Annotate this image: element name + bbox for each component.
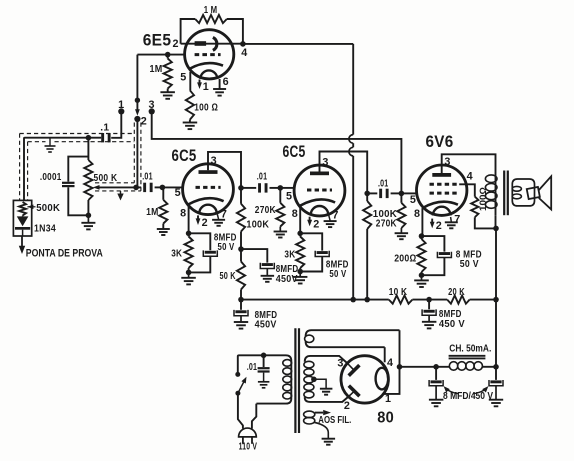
AC plug [239,428,257,444]
label C1 value .1 [100,123,109,134]
svg-text:50 K: 50 K [220,271,236,282]
label C2 value .0001 [40,172,62,183]
svg-text:8: 8 [292,208,298,220]
wire V4 plate lead pin3 [442,154,496,173]
svg-text:270K: 270K [376,219,397,230]
svg-text:3: 3 [322,157,328,169]
svg-text:5: 5 [180,71,186,83]
wire B+ vertical right [495,228,497,366]
svg-text:2: 2 [344,400,350,412]
ground C11 [422,322,437,329]
svg-text:7: 7 [221,208,227,220]
ground R11 [293,272,308,284]
probe tip arrow [19,236,25,254]
junction R14 bottom [419,272,425,278]
svg-text:5: 5 [175,187,181,199]
V1 grid dashes [195,53,221,56]
resistor R13 270K (V4 grid leak) [397,193,405,233]
resistor R12 100K (V3 plate load) [363,193,371,299]
label V2 pin 3 [211,155,217,167]
svg-text:6V6: 6V6 [426,133,454,151]
tube V5 80 envelope [341,356,388,403]
ground V2 pin7 [212,220,225,226]
wire C1 left lead [88,137,101,139]
ground C6 [261,276,275,282]
label 110 V [239,442,258,453]
wire C9 to V4 grid [401,192,416,194]
node jack 3 [149,108,155,114]
svg-text:1: 1 [203,81,209,93]
svg-text:.0001: .0001 [40,172,62,183]
label V1 pin 4 [241,47,247,59]
label R15 value 100 ohm [478,187,488,211]
svg-text:6E5: 6E5 [143,32,172,50]
resistor R6 1M (V2 grid leak) [159,187,167,229]
svg-text:.01: .01 [247,362,258,373]
label V5 pin 3 [337,357,343,369]
label C3 value .01 [142,172,153,183]
svg-text:50 V: 50 V [460,259,479,270]
resistor R15 100 ohm (screen) [471,197,496,229]
capacitor C9 .01 (to V4 grid) [367,189,401,198]
wire V1 grid to node [137,54,184,56]
wire V4 screen pin4 [459,184,475,196]
ground R7 [181,272,196,284]
capacitor C5 .01 (interstage) [241,183,280,192]
svg-text:3K: 3K [171,248,182,259]
V4 cathode arc [422,202,458,208]
label V4 pin 8 [414,208,420,220]
svg-text:500K: 500K [36,203,60,214]
svg-text:.01: .01 [378,178,389,189]
svg-text:2: 2 [436,220,442,232]
V4 pin2 arrow [430,219,435,229]
transformer T2 core [295,328,299,433]
label R11 value 3K [284,250,295,261]
transformer T2 HV secondary [304,356,350,402]
transformer T2 primary [239,355,292,403]
capacitor C12 .01 (AC line) [258,355,270,382]
label tube V2 6C5 [172,147,197,165]
junction V2 cathode [186,231,192,237]
V3 heater loop [311,206,328,215]
V3 cathode arc [300,199,335,205]
label R10 value 270K [255,205,276,216]
V2 pin7 lead [217,214,218,219]
label V1 pin 6 [223,76,229,88]
V3 pin2 arrow [307,217,312,227]
svg-text:450 V: 450 V [439,319,465,330]
label R12 value 100K [373,209,398,220]
transformer T2 filament winding AOS FIL [304,410,331,439]
ground V1 pin6 [213,89,226,96]
svg-text:500 K: 500 K [94,173,118,184]
label PONTA DE PROVA [26,247,103,259]
V4 grid dashes [430,192,460,195]
svg-text:100 Ω: 100 Ω [194,103,218,114]
junction bus/R12 feed [364,297,370,303]
svg-text:3: 3 [211,155,217,167]
capacitor C6 8MFD 450V (decoupling) [241,249,274,276]
label R3 value 100 ohm [194,103,218,114]
ground pot/C2 [81,215,95,229]
ground R14 [414,275,429,287]
V4 screen dashes [430,183,460,186]
V4 plate bar [432,173,451,177]
junction pot bottom [86,213,92,219]
junction bus left end [238,297,244,303]
wire jack2 down (shielded) [136,119,138,187]
junction grid/1M [165,52,171,58]
label C6 value 8MFD 450V [276,264,299,285]
label tube V5 80 [377,409,394,426]
ground shield top [45,138,56,152]
V3 plate bar [310,172,329,176]
label C8 value 8MFD 50V [326,260,349,281]
label V3 pin 8 [292,208,298,220]
V1 cathode arc [190,63,223,69]
svg-text:80: 80 [377,409,394,426]
label V3 pin 3 [322,157,328,169]
transformer T1 primary [485,171,497,228]
svg-text:8: 8 [414,208,420,220]
choke CH 50mA [449,362,496,371]
ground R6 [157,229,170,235]
label R7 value 3K [171,248,182,259]
svg-text:5: 5 [286,190,292,202]
junction V3 plate/C9 [364,191,370,197]
ground R10 [274,232,288,238]
capacitor C10 8MFD 50V (V4 cathode) [422,236,452,275]
V5 plate 2 [349,386,360,397]
V3 pin7 lead [329,216,330,221]
svg-text:7: 7 [332,210,338,222]
label tube V1 6E5 [143,32,172,50]
shield braid dashes [20,123,141,201]
junction R7 bottom [186,270,192,276]
label C12 value .01 [247,362,258,373]
switch S1 [235,355,246,395]
label V1 pin 5 [180,71,186,83]
probe box [13,200,31,236]
svg-text:.1: .1 [100,123,109,134]
capacitor C3 .01 [136,183,162,192]
resistor R7 3K (V2 cathode) [185,233,193,272]
capacitor C14 8MFD/450V [489,367,503,400]
junction C5/V3 grid [278,185,284,191]
label R8 value 100K [246,219,269,230]
wire V3 plate lead pin3 [320,152,368,194]
wire probe to C1 junction [24,138,88,201]
svg-text:1 M: 1 M [204,5,218,16]
label AOS FIL [318,415,351,426]
svg-text:3: 3 [149,99,155,111]
label R13 value 270K [376,219,397,230]
label node 1 [118,99,124,111]
wire C5 to V3 grid [280,187,295,189]
ground C7 [234,322,248,329]
junction V2 plate/C5 [238,185,244,191]
V4 pin7 lead [450,217,453,222]
svg-text:CH. 50mA.: CH. 50mA. [449,343,491,354]
svg-text:50 V: 50 V [218,242,235,253]
label C11 value 8MFD 450V [439,309,465,330]
svg-text:1: 1 [385,393,391,405]
plug arrow into jack 2 [135,102,140,116]
wire V4 cathode pin8 [421,208,423,236]
label R1 value 1M [204,5,218,16]
svg-text:8: 8 [180,208,186,220]
wire B+ bus [241,299,496,301]
svg-text:8 MFD/450 V: 8 MFD/450 V [443,391,493,402]
junction bus/V1 feed [350,297,356,303]
V1 pin6 lead [219,79,221,89]
label V2 pin 5 [175,187,181,199]
svg-text:.01: .01 [142,172,153,183]
label R17 value 20K [448,287,465,298]
diode D1 1N34 [15,216,30,237]
svg-text:3: 3 [444,156,450,168]
node jack 2 [134,116,140,122]
R4 wiper arm [93,185,136,190]
V2 grid dashes [196,186,221,189]
resistor R1 1M (6E5 plate feedback) [195,15,227,23]
transformer T1 secondary [512,179,534,206]
svg-text:50 V: 50 V [329,269,346,280]
ground R13 [395,233,409,239]
ground C12 [258,382,270,388]
label node 3 [149,99,155,111]
ground AOS FIL [322,439,336,445]
junction bus right end [493,297,499,303]
V5 plate 3 [348,364,360,376]
label R14 value 200 ohm [394,253,416,264]
V2 pin2 arrow [196,215,201,225]
wire V1 plate to bus (with hops) [243,44,353,300]
junction V1 pin4 [240,41,246,47]
V3 grid dashes [307,189,332,192]
label R2 value 1M [150,64,163,75]
resistor R2 1M (V1 grid leak) [164,55,172,93]
svg-text:1M: 1M [150,64,163,75]
label C9 value .01 [378,178,389,189]
capacitor C4 8MFD 50V (V2 cathode) [189,233,218,272]
svg-text:2: 2 [313,218,319,230]
svg-text:100K: 100K [246,219,269,230]
wire switch to plug [238,393,243,428]
ground R3 [183,123,198,130]
svg-text:110 V: 110 V [239,442,258,453]
svg-text:3K: 3K [284,250,295,261]
tube V2 6C5 envelope [183,164,234,215]
tube V4 6V6 envelope [417,165,467,215]
label tube V3 6C5 [283,143,306,161]
svg-text:6C5: 6C5 [172,147,197,165]
svg-text:AOS FIL.: AOS FIL. [318,415,351,426]
svg-text:1: 1 [118,99,124,111]
label R5 value 500K [36,203,60,214]
junction 10K/20K [426,297,432,303]
capacitor C1 .1 [101,133,110,142]
V2 cathode arc [189,198,224,204]
resistor R9 50K (decoupling) [237,249,245,300]
ground C13 [429,400,444,407]
label R16 value 10K [389,287,408,298]
transformer T2 rectifier filament winding [305,330,400,347]
svg-text:2: 2 [202,217,208,229]
label C4 value 8MFD 50V [214,233,237,253]
label V3 pin 7 [332,210,338,222]
label V5 pin 1 [385,393,391,405]
wire V3 cathode pin8 [299,206,301,234]
ground V3 pin7 [324,221,337,227]
node jack 1 [118,108,124,114]
label V4 pin 4 [467,170,473,182]
label V2 pin 7 [221,208,227,220]
junction HV center tap [311,377,317,383]
svg-text:1M: 1M [146,207,159,218]
label V4 pin 5 [410,194,416,206]
svg-text:450V: 450V [276,274,298,285]
junction R8/R9 decouple [238,246,244,252]
svg-text:3: 3 [337,357,343,369]
resistor R16 10K (bus) [389,296,413,304]
svg-text:7: 7 [454,214,460,226]
V1 magic-eye target arc [213,37,217,50]
transformer T1 core [504,171,508,216]
V1 target plate bar [195,41,207,46]
svg-text:.01: .01 [257,172,268,183]
wire V5 pin1/filament [384,330,400,394]
svg-text:2: 2 [172,38,178,50]
label V3 pin 2 [313,218,319,230]
label V4 pin 3 [444,156,450,168]
label C5 value .01 [257,172,268,183]
label CH. 50mA [449,343,491,354]
label V1 pin 1 [203,81,209,93]
wire V2 cathode pin8 [188,204,190,233]
svg-text:10 K: 10 K [389,287,408,298]
wire jack1 to C1 [111,111,121,137]
label V2 pin 2 [202,217,208,229]
ground HV center tap [320,389,333,395]
junction OPT/screen/B+ [493,226,499,232]
V4 heater loop [433,207,451,216]
junction R11 bottom [297,269,303,275]
resistor R3 100 ohm (V1 cathode) [186,90,194,122]
svg-text:PONTA DE PROVA: PONTA DE PROVA [26,247,103,259]
label V1 pin 2 [172,38,178,50]
V2 heater loop [199,205,216,214]
tube V1 6E5 envelope [185,30,234,79]
junction V4 cathode [419,233,425,239]
choke core [449,356,486,359]
label C13/C14 value 8MFD/450V [443,386,493,402]
wire V5 pin4 lead [384,347,386,362]
svg-text:6: 6 [223,76,229,88]
label node 2 [141,116,147,128]
resistor R14 200 ohm (V4 cathode) [417,236,425,275]
svg-text:6C5: 6C5 [283,143,306,161]
label R4 value 500 K [94,173,118,184]
speaker horn [539,176,551,209]
label V2 pin 8 [180,208,186,220]
V1 pin1 arrow [197,80,202,90]
capacitor C8 8MFD 50V (V3 cathode) [300,233,329,271]
wire plug to primary [252,404,256,429]
wire center tap to ground [314,379,326,388]
tube V3 6C5 envelope [294,165,345,216]
svg-text:4: 4 [387,357,393,369]
V5 filament loop [376,368,389,390]
resistor R8 100K (V2 plate load) [237,188,245,249]
label V5 pin 2 [344,400,350,412]
resistor R11 3K (V3 cathode) [296,233,304,271]
svg-text:5: 5 [410,194,416,206]
capacitor C13 8MFD/450V [429,367,443,400]
svg-text:1N34: 1N34 [34,224,56,235]
ground V4 pin7 [445,222,458,228]
label C7 value 8MFD 450V [255,310,278,331]
ground shield wiper [117,191,123,201]
junction wiper/C3 [133,185,139,191]
wire V1 grid down to plug [136,55,138,101]
label C10 value 8MFD 50V [456,249,482,270]
junction probe/pot top [86,135,92,141]
svg-text:4: 4 [467,170,473,182]
svg-text:450V: 450V [255,320,277,331]
resistor R10 270K (V3 grid leak) [276,188,284,232]
label D1 value 1N34 [34,224,56,235]
label R6 value 1M [146,207,159,218]
wire V1 pin5 lead [189,72,191,91]
V1 heater loop [200,70,217,78]
label R9 value 50K [220,271,236,282]
label R5 500K pointer [27,205,35,210]
svg-text:200Ω: 200Ω [394,253,416,264]
wire 6E5 feedback loop [181,19,243,44]
svg-text:4: 4 [241,47,247,59]
label tube V4 6V6 [426,133,454,151]
junction C3/grid [160,185,166,191]
svg-text:270K: 270K [255,205,276,216]
label V4 pin 2 [436,220,442,232]
svg-text:20 K: 20 K [448,287,465,298]
capacitor C7 8MFD 450V (bus filter) [234,300,248,322]
wire C3 to V2 grid [162,186,183,188]
junction C9/V4 grid [399,191,405,197]
label V4 pin 7 [454,214,460,226]
capacitor C2 .0001 [62,157,88,216]
wire V2 plate lead pin3 [208,152,241,188]
potentiometer R4 500K [84,138,92,216]
junction plug wire [135,98,140,103]
resistor R5 500K (probe) [19,202,26,216]
junction C13 top [433,364,439,370]
speaker driver [527,187,540,199]
wire node3 to V3 grid [152,111,402,193]
junction V3 cathode [297,231,303,237]
label V3 pin 5 [286,190,292,202]
capacitor C11 8MFD 450V (bus filter) [422,300,436,322]
ground C14 [489,400,503,407]
wire V1 pin2-pin4 line [181,43,243,45]
wire B+ to choke [400,366,450,368]
label V5 pin 4 [387,357,393,369]
V2 plate bar [199,170,218,174]
resistor R17 20K (bus) [447,296,469,304]
junction C14 top [493,364,499,370]
